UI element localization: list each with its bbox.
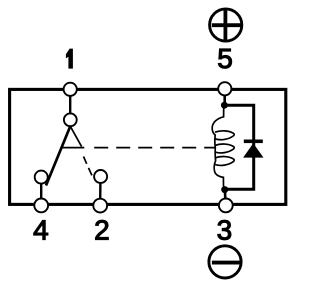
svg-text:3: 3 <box>217 215 233 246</box>
svg-text:5: 5 <box>217 43 233 74</box>
svg-text:4: 4 <box>33 215 49 246</box>
svg-text:2: 2 <box>94 215 110 246</box>
